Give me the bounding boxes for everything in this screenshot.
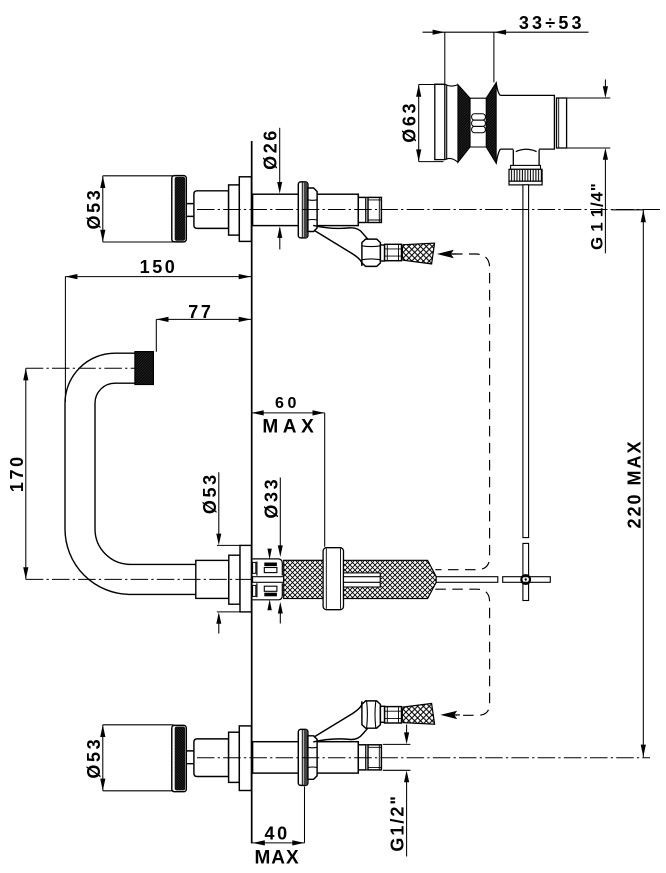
hose routing dashed path (bottom supply) <box>435 589 489 715</box>
dimension Ø53 (spout flange) <box>217 472 241 633</box>
svg-text:77: 77 <box>188 302 213 322</box>
spout step cylinder <box>229 555 240 604</box>
dimension 220 MAX (right) <box>612 210 644 758</box>
rod slot in shank <box>344 573 381 587</box>
threaded shank section A (cross-hatched) <box>284 560 323 598</box>
svg-text:33÷53: 33÷53 <box>519 13 585 33</box>
fixing nut N1 behind wall <box>253 562 256 573</box>
linkage pivot ring <box>521 575 530 584</box>
handle stem V1 <box>186 204 194 217</box>
dimension 150 (spout reach) <box>65 277 251 402</box>
braided hose V1 <box>402 243 434 264</box>
hose routing dashed path (top supply) <box>435 254 489 570</box>
svg-text:Ø53: Ø53 <box>84 737 104 779</box>
dimension 77 (aerator to wall) <box>156 319 251 351</box>
pop-up rod vertical <box>523 185 529 538</box>
centerline of bottom valve <box>197 757 650 759</box>
svg-text:MAX: MAX <box>254 847 299 868</box>
svg-text:60: 60 <box>275 395 300 412</box>
friction washer W1 <box>323 548 343 610</box>
dimension G1/2 (bottom valve thread) <box>383 725 411 857</box>
knob bell mouth edge <box>446 84 448 159</box>
centerline of spout top arm <box>26 367 135 369</box>
pop-up waste control P1 (top right) <box>435 83 567 538</box>
dimension 60 MAX (wall depth) <box>251 413 325 547</box>
dimension Ø26 (top valve pipe) <box>279 128 281 250</box>
union nut V1 <box>308 188 317 232</box>
spout outer contour <box>65 353 196 594</box>
pop-up rod horizontal (through nut) <box>253 577 284 583</box>
hose direction arrow (top) <box>437 250 454 258</box>
handle knob V1 <box>172 176 187 242</box>
svg-text:220 MAX: 220 MAX <box>624 439 644 528</box>
hose nut facets V1 (horizontal) <box>362 246 381 260</box>
thread stub G1 1/4 <box>557 98 567 148</box>
step ring V1 <box>229 185 240 235</box>
knurled adjuster nut <box>511 165 541 169</box>
svg-text:Ø53: Ø53 <box>84 188 104 230</box>
knob cone band left (knurled) <box>458 85 470 163</box>
dimension 40 MAX (bottom) <box>252 787 304 843</box>
body pipe V1 <box>253 194 359 225</box>
pop-up body <box>498 95 555 149</box>
hose nut facets V2 (vertical) <box>367 701 376 728</box>
cross horizontal bar <box>503 577 551 583</box>
hose connector V1 <box>380 245 384 261</box>
knob cap <box>435 84 445 159</box>
body tube junction <box>513 149 539 165</box>
spout S1 (J-shaped swan tube) <box>65 352 251 612</box>
svg-text:G1/2": G1/2" <box>388 794 408 852</box>
hose ferrule V1 <box>385 244 402 260</box>
knob waist with rings <box>470 98 486 147</box>
dimension Ø53 (bottom valve handle) <box>103 725 174 791</box>
pop-up linkage cross L1 <box>503 543 551 600</box>
dimension Ø63 (pop-up knob) <box>419 85 445 162</box>
elbow V1 <box>313 225 368 239</box>
svg-text:G 1 1/4": G 1 1/4" <box>587 182 606 250</box>
wall flange V1 <box>239 177 251 242</box>
aerator tip (knurled) <box>135 352 154 385</box>
knob neck curves <box>445 84 458 162</box>
svg-text:170: 170 <box>7 454 27 492</box>
hose nut V1 <box>362 239 381 266</box>
outlet nipple V1 <box>357 194 359 225</box>
svg-text:40: 40 <box>264 824 289 844</box>
dimension G 1 1/4 (pop-up thread) <box>567 80 611 254</box>
dimension 170 (spout height) <box>25 368 27 579</box>
spout inner contour <box>95 383 196 564</box>
pop-up rod horizontal (cone to linkage) <box>436 577 498 583</box>
svg-text:150: 150 <box>140 257 178 277</box>
bonnet V1 <box>194 191 229 229</box>
spout wall flange (dia 53) <box>240 545 251 612</box>
threaded shank section B with cone end (cross-hatched) <box>344 560 437 598</box>
valve unit V1 (top wall valve), drawn parts; mirrored later for V2 <box>172 176 435 267</box>
dimension Ø33 (spout shank thread) <box>279 478 281 624</box>
dimension Ø53 (top valve handle) <box>103 176 174 242</box>
escutcheon disc V1 <box>298 182 308 238</box>
svg-text:Ø33: Ø33 <box>261 477 281 519</box>
svg-text:Ø53: Ø53 <box>200 472 220 514</box>
svg-text:MAX: MAX <box>262 416 318 437</box>
svg-text:Ø26: Ø26 <box>261 128 281 170</box>
spout shank sleeve <box>196 560 229 598</box>
svg-text:Ø63: Ø63 <box>399 101 419 143</box>
valve unit V2 (bottom wall valve) : mirror of V1 <box>172 701 435 792</box>
spout body behind wall (threaded shank, nut, washer, rod) <box>253 548 498 610</box>
centerline of top valve <box>197 209 661 211</box>
cross vertical bar <box>523 543 529 600</box>
centerline of spout bottom arm <box>26 578 251 580</box>
knob cone band right (knurled) <box>486 83 496 164</box>
wall line <box>251 141 253 843</box>
hose direction arrow (bottom) <box>440 711 457 719</box>
dimension 33÷53 (top) <box>423 32 589 84</box>
